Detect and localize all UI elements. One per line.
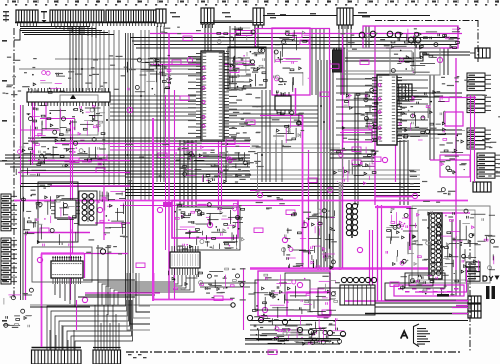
connector P101 bbox=[16, 10, 38, 26]
symbol ground marks topleft bbox=[3, 11, 9, 22]
net magenta pair below IC201 bbox=[219, 140, 222, 205]
net magenta page refs bbox=[37, 57, 442, 312]
wire nested corners bbox=[127, 273, 150, 330]
cluster left video amp bbox=[27, 105, 106, 167]
label scatter texts bbox=[3, 27, 500, 301]
cluster right col parts bbox=[440, 130, 467, 195]
wire staircase to P401 bbox=[345, 52, 470, 61]
block IF hatched bbox=[392, 84, 412, 101]
wire IC301 fan bbox=[336, 79, 428, 136]
wire bar under connectors bbox=[15, 22, 156, 24]
connector P106 bbox=[253, 8, 264, 29]
net magenta center box bbox=[163, 201, 238, 239]
cluster tuner parts bbox=[230, 48, 267, 87]
cluster h-drive bbox=[331, 147, 379, 185]
cluster small top mid bbox=[217, 27, 255, 44]
cluster below IC201 bbox=[175, 142, 251, 183]
block box tuner bbox=[228, 47, 266, 88]
wire black akb lines bbox=[250, 283, 468, 321]
wire gray heavy vertical bbox=[339, 182, 342, 270]
net magenta audio boxes bbox=[244, 268, 331, 330]
cluster left edge texts bbox=[3, 288, 33, 328]
cluster right of T601 bbox=[97, 191, 126, 236]
net magenta dy wire bbox=[415, 268, 468, 306]
net magenta top-right box bbox=[359, 26, 458, 48]
net magenta vertical B bbox=[152, 118, 154, 301]
cluster right mid bbox=[399, 91, 446, 141]
label top texts bbox=[170, 12, 370, 18]
connector P301 bbox=[1, 194, 17, 231]
cluster jungle parts bbox=[168, 203, 245, 291]
cluster mid small bbox=[272, 111, 304, 147]
border row marks left bbox=[2, 40, 7, 322]
note A list bbox=[401, 324, 430, 347]
connector P103 bbox=[106, 10, 156, 26]
cluster top-right transistors bbox=[391, 27, 460, 49]
net magenta L bottom-center bbox=[154, 273, 234, 300]
label IC301 pin names bbox=[365, 78, 407, 142]
wire P107 drops bbox=[339, 25, 351, 48]
net magenta mid bus bbox=[14, 201, 468, 206]
block box left mid bbox=[38, 182, 80, 242]
cluster bottom transistor row bbox=[245, 315, 346, 345]
net magenta to P407 bbox=[430, 301, 468, 314]
block box crt bbox=[405, 273, 445, 288]
cluster crt board bbox=[400, 274, 458, 296]
net magenta tuner box bbox=[255, 28, 330, 130]
block box left gray bbox=[60, 95, 98, 135]
border ruler ticks top bbox=[5, 0, 499, 6]
connector P401 bbox=[470, 48, 490, 58]
net magenta bottom bus bbox=[250, 267, 428, 270]
wire IC601 drops bbox=[30, 245, 135, 315]
label IC201 pin names bbox=[188, 56, 237, 135]
wire gray L bus bbox=[340, 48, 415, 74]
connector P107 bbox=[337, 8, 353, 29]
cluster bottom audio bbox=[252, 274, 340, 344]
cluster psu main bbox=[424, 209, 499, 273]
choke dark block bbox=[333, 50, 342, 72]
cluster between blob bbox=[342, 88, 378, 141]
cluster grayboxtr parts bbox=[391, 50, 437, 73]
cluster left small top bbox=[29, 71, 71, 94]
connector P402 bbox=[467, 73, 491, 91]
sheet edge right dash-dot bbox=[470, 20, 478, 352]
connector P102 bbox=[50, 10, 104, 26]
wire bus from P102 bbox=[14, 26, 96, 40]
net magenta deflection wires bbox=[345, 140, 430, 301]
net magenta vertical D bbox=[342, 34, 344, 268]
net magenta left block bbox=[25, 186, 160, 347]
net magenta psu L bbox=[375, 197, 412, 251]
block box center big bbox=[177, 207, 240, 250]
connector P202 bbox=[93, 348, 121, 364]
symbol ground mid bbox=[41, 11, 47, 23]
transformer T701 flyback bbox=[346, 203, 357, 238]
connector P404 bbox=[467, 128, 491, 149]
net magenta top bus bbox=[150, 31, 462, 65]
cluster vert defl bbox=[282, 209, 337, 269]
IC IC101 bar bbox=[27, 88, 110, 106]
block box bottom mid B bbox=[285, 273, 330, 300]
sheet edge top-right dash-dot bbox=[375, 20, 478, 22]
block box top-right gray bbox=[390, 48, 440, 75]
IC IC701 hatched bbox=[170, 246, 200, 275]
net magenta vertical E bbox=[320, 130, 322, 215]
connector P403 bbox=[467, 95, 491, 113]
label DY bbox=[483, 276, 500, 282]
connector P408 dy bbox=[466, 262, 480, 281]
sheet edge bottom dash-dot bbox=[126, 351, 462, 353]
net magenta akb box bbox=[394, 285, 464, 296]
net magenta hdrive box bbox=[340, 130, 375, 142]
net magenta right column bbox=[430, 58, 476, 270]
wire junction dots bbox=[45, 58, 457, 270]
net magenta left amp bbox=[18, 102, 130, 300]
transformer T801 row bbox=[340, 277, 377, 305]
net magenta vertical A bbox=[166, 34, 175, 301]
cluster magenta box parts bbox=[273, 30, 309, 95]
wire gray horizontal runs bbox=[19, 59, 340, 307]
wire drops to bottom connectors bbox=[47, 300, 147, 358]
block box bottom mid A bbox=[255, 280, 310, 310]
net label tags magenta bbox=[40, 33, 449, 355]
jack bars bbox=[486, 286, 495, 299]
net magenta mid rows bbox=[55, 144, 250, 151]
net magenta vertical F bbox=[374, 26, 376, 205]
connector P407 bbox=[468, 296, 481, 318]
connector P405 bbox=[477, 153, 500, 178]
connector P201 bbox=[32, 348, 82, 364]
block box psu bbox=[412, 206, 490, 283]
wire IC701 to P202 bbox=[98, 275, 258, 305]
IC IC601 wide bbox=[32, 247, 92, 284]
wire black vertical runs bbox=[21, 25, 461, 300]
cluster left block parts bbox=[22, 195, 79, 246]
block box mid gray bbox=[258, 153, 343, 191]
IC IC201 microcontroller bbox=[196, 51, 229, 141]
sheet edge left dash-dot bbox=[13, 28, 15, 298]
connector P406 bbox=[473, 182, 491, 192]
IC IC301 jungle bbox=[372, 75, 402, 145]
cluster left edge mid bbox=[16, 141, 51, 176]
IC IC801 dip8 bbox=[275, 92, 291, 114]
transformer T601 bbox=[79, 191, 97, 225]
label AW30 bbox=[437, 294, 449, 297]
connector P105 bbox=[201, 8, 214, 28]
net magenta bottom-left drop bbox=[77, 249, 106, 330]
block box video out bbox=[318, 288, 375, 315]
connector P302 bbox=[1, 238, 17, 284]
cluster psu left bbox=[386, 208, 423, 266]
net magenta vertical C bbox=[250, 88, 309, 268]
cluster small upper bbox=[127, 55, 171, 95]
connector P104 bbox=[156, 9, 166, 27]
transformer T901 smps bbox=[422, 213, 442, 279]
